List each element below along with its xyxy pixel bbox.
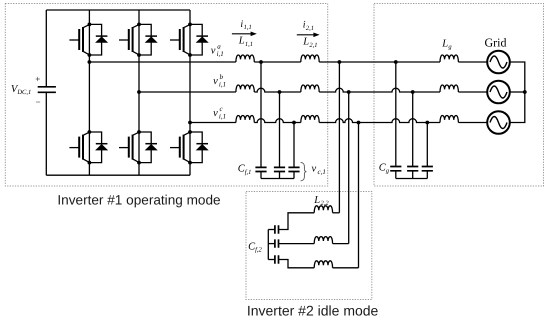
svg-text:Grid: Grid [485, 35, 507, 49]
capacitor Cf,1 phase b [274, 167, 285, 178]
wire: inverter 2 branch a [279, 213, 340, 230]
inductor L1,1 phase a [236, 55, 254, 62]
wire: DC bus top rail [46, 9, 190, 11]
node: phase c junction dots [188, 121, 429, 125]
capacitor Cg phase c [422, 167, 433, 179]
capacitor Cf,2 phase a [268, 225, 278, 233]
wire: phase leg b vertical [138, 10, 140, 175]
dashed box: Grid section [374, 4, 544, 187]
capacitor Cf,1 phase c [288, 167, 299, 178]
svg-text:Inverter #2 idle mode: Inverter #2 idle mode [247, 303, 379, 319]
transistor Q3 [119, 23, 157, 57]
transistor Q1 [69, 23, 107, 57]
wire: tap phase a to Cf,1 [260, 62, 262, 167]
arrow i1,1 [232, 32, 257, 37]
wire: tap phase b to Cf,1 [279, 92, 281, 167]
capacitor Cf,2 phase b [268, 239, 278, 247]
wire: phase b line with hops [139, 88, 487, 92]
inductor L2,2 phase b [314, 237, 332, 244]
capacitor Cg phase b [407, 167, 418, 179]
AC source: grid phase c [487, 111, 510, 134]
svg-text:−: − [36, 97, 41, 107]
transistor Q2 [69, 130, 107, 164]
node: phase b junction dots [137, 90, 415, 94]
inductor L2,2 phase a [314, 206, 332, 213]
wire: Cf,1 common bar [261, 178, 294, 180]
dashed box: Inverter #1 operating mode [5, 4, 327, 187]
svg-text:Inverter #1 operating mode: Inverter #1 operating mode [57, 192, 220, 207]
capacitor Cf,1 phase a [255, 167, 266, 178]
wire: phase leg a vertical [88, 10, 90, 175]
capacitor Cg phase a [390, 167, 401, 179]
inductor L2,1 phase a [301, 55, 319, 62]
wire: inverter 2 branch c [279, 260, 359, 268]
wire: Cf,2 common left bus [267, 230, 269, 260]
wire: tap phase c to Cg [426, 123, 428, 167]
inductor L1,1 phase b [236, 85, 254, 92]
dashed box: Inverter #2 idle mode [246, 192, 372, 300]
wire: tap phase a to Cg [395, 62, 397, 167]
wire: tap phase c to Cf,1 [293, 123, 295, 168]
wire: tap phase c to inverter 2 [358, 123, 360, 268]
wire: grid right connections [510, 62, 525, 123]
wire: tap phase a to inverter 2 [338, 62, 340, 213]
wire: phase a line [89, 61, 487, 63]
inductor Lg phase c [440, 116, 458, 123]
transistor Q4 [119, 130, 157, 164]
brace for vc,1 [301, 162, 307, 181]
svg-text:+: + [35, 74, 40, 84]
wire: tap phase b to inverter 2 [348, 92, 350, 244]
AC source: grid phase a [487, 51, 510, 74]
transistor Q6 [170, 130, 208, 164]
inductor L1,1 phase c [236, 116, 254, 123]
transistor Q5 [170, 23, 208, 57]
inductor L2,2 phase c [314, 261, 332, 268]
inductor Lg phase a [440, 55, 458, 62]
inductor L2,1 phase c [301, 116, 319, 123]
wire: DC bus bottom rail [46, 174, 190, 176]
inductor Lg phase b [440, 85, 458, 92]
wire: phase c line with hops [190, 119, 487, 123]
node: phase a junction dots [88, 60, 398, 64]
arrow i2,1 [297, 33, 320, 38]
capacitor VDC,1 (DC-link source) [38, 10, 56, 175]
wire: tap phase b to Cg [412, 92, 414, 167]
wire: phase leg c vertical [189, 10, 191, 175]
capacitor Cf,2 phase c [268, 255, 278, 263]
wire: inverter 2 branch b [279, 243, 349, 245]
node: grid neutral junction [523, 90, 527, 94]
inductor L2,1 phase b [301, 85, 319, 92]
wire: Cg common bar [396, 178, 428, 180]
AC source: grid phase b [487, 81, 510, 104]
